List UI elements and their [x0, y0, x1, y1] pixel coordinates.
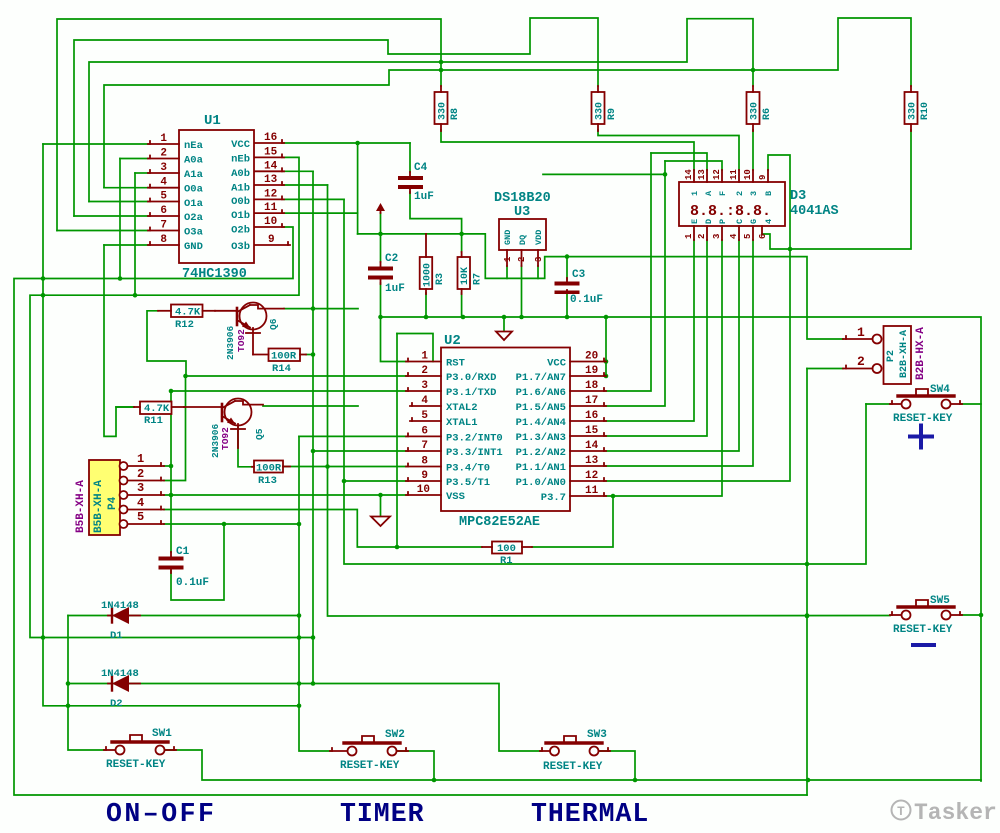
svg-text:A: A [704, 190, 714, 196]
svg-text:4: 4 [764, 219, 774, 224]
svg-text:4.7K: 4.7K [144, 403, 170, 415]
svg-text:1uF: 1uF [385, 283, 405, 295]
svg-text:3: 3 [160, 162, 167, 174]
svg-text:O0b: O0b [231, 196, 250, 208]
svg-text:RESET-KEY: RESET-KEY [893, 413, 953, 425]
svg-text:U1: U1 [204, 113, 221, 129]
svg-text:7: 7 [160, 220, 167, 232]
svg-text:P4: P4 [107, 496, 119, 510]
svg-text:0.1uF: 0.1uF [570, 294, 603, 306]
svg-text:A1b: A1b [231, 183, 250, 195]
svg-text:DS18B20: DS18B20 [494, 191, 551, 206]
svg-text:4041AS: 4041AS [790, 204, 839, 219]
svg-text:3: 3 [749, 191, 759, 196]
svg-text:9: 9 [421, 470, 428, 482]
svg-text:5: 5 [160, 191, 167, 203]
svg-text:R8: R8 [450, 108, 461, 120]
svg-text:SW2: SW2 [385, 729, 405, 741]
svg-text:P3.7: P3.7 [541, 492, 566, 504]
svg-text:R11: R11 [144, 415, 163, 427]
svg-text:R13: R13 [258, 475, 277, 487]
svg-text:4: 4 [421, 395, 428, 407]
svg-text:THERMAL: THERMAL [531, 799, 649, 829]
svg-text:19: 19 [585, 365, 598, 377]
svg-text:D2: D2 [110, 698, 123, 710]
svg-text:5: 5 [743, 234, 753, 239]
svg-text:RESET-KEY: RESET-KEY [543, 761, 603, 773]
svg-text:1N4148: 1N4148 [101, 668, 139, 680]
svg-text:RESET-KEY: RESET-KEY [340, 760, 400, 772]
svg-text:2: 2 [421, 365, 428, 377]
svg-text:2: 2 [517, 257, 527, 262]
svg-text:P3.3/INT1: P3.3/INT1 [446, 447, 503, 459]
svg-text:MPC82E52AE: MPC82E52AE [459, 515, 540, 530]
svg-text:TO92: TO92 [236, 329, 247, 352]
svg-text:6: 6 [160, 205, 167, 217]
svg-text:1: 1 [690, 191, 700, 196]
svg-text:O1a: O1a [184, 198, 204, 210]
svg-text:D1: D1 [110, 630, 123, 642]
svg-text:P3.4/T0: P3.4/T0 [446, 463, 490, 475]
svg-text:F: F [718, 191, 728, 196]
svg-text:RST: RST [446, 358, 465, 370]
svg-text:2N3906: 2N3906 [225, 325, 236, 360]
svg-text:6: 6 [421, 425, 428, 437]
svg-text:R10: R10 [920, 102, 931, 120]
svg-text:O1b: O1b [231, 210, 250, 222]
svg-text:16: 16 [585, 410, 598, 422]
svg-text:SW5: SW5 [930, 595, 950, 607]
svg-text:14: 14 [684, 169, 694, 180]
svg-text:12: 12 [264, 188, 277, 200]
svg-text:R14: R14 [272, 363, 291, 375]
svg-text:R9: R9 [607, 108, 618, 120]
svg-text:P3.1/TXD: P3.1/TXD [446, 387, 496, 399]
svg-text:1: 1 [684, 233, 694, 239]
svg-text:17: 17 [585, 395, 598, 407]
svg-text:12: 12 [712, 169, 722, 180]
svg-text:1N4148: 1N4148 [101, 600, 139, 612]
svg-text:16: 16 [264, 132, 277, 144]
svg-text:3: 3 [534, 257, 544, 262]
svg-text:11: 11 [585, 485, 599, 497]
svg-text:O2b: O2b [231, 225, 250, 237]
svg-text:2: 2 [857, 354, 865, 369]
svg-text:3: 3 [421, 380, 428, 392]
svg-text:3: 3 [712, 234, 722, 239]
svg-text:C: C [735, 219, 745, 224]
svg-text:R6: R6 [762, 108, 773, 120]
svg-text:100R: 100R [271, 351, 297, 363]
svg-text:4: 4 [729, 233, 739, 239]
svg-text:D: D [704, 219, 714, 224]
svg-text:13: 13 [264, 174, 278, 186]
svg-text:P3.0/RXD: P3.0/RXD [446, 372, 496, 384]
svg-text:10: 10 [417, 484, 430, 496]
svg-text:RESET-KEY: RESET-KEY [106, 759, 166, 771]
svg-text:VCC: VCC [231, 139, 251, 151]
svg-text:P3.2/INT0: P3.2/INT0 [446, 432, 503, 444]
svg-text:14: 14 [585, 440, 599, 452]
svg-text:6: 6 [758, 234, 768, 239]
svg-text:SW4: SW4 [930, 384, 950, 396]
svg-text:330: 330 [595, 102, 606, 120]
svg-text:P: P [718, 219, 728, 224]
svg-text:330: 330 [750, 102, 761, 120]
svg-text:13: 13 [697, 169, 707, 180]
svg-text:330: 330 [908, 102, 919, 120]
svg-text:SW3: SW3 [587, 729, 607, 741]
svg-text:0.1uF: 0.1uF [176, 577, 209, 589]
svg-text:4: 4 [137, 496, 144, 510]
svg-text:5: 5 [421, 410, 428, 422]
svg-text:B5B-XH-A: B5B-XH-A [93, 480, 105, 533]
svg-text:O2a: O2a [184, 212, 204, 224]
svg-text:TIMER: TIMER [340, 799, 425, 829]
svg-text:O0a: O0a [184, 184, 204, 196]
svg-text:B: B [764, 191, 774, 196]
svg-text:E: E [690, 219, 700, 224]
svg-text:nEa: nEa [184, 140, 204, 152]
svg-text:9: 9 [758, 175, 768, 180]
svg-text:7: 7 [421, 440, 428, 452]
svg-text:T: T [897, 804, 905, 819]
svg-text:1: 1 [857, 325, 865, 340]
svg-text:XTAL1: XTAL1 [446, 417, 478, 429]
svg-text:C1: C1 [176, 546, 190, 558]
svg-text:D3: D3 [790, 189, 806, 204]
svg-text:5: 5 [137, 510, 144, 524]
svg-text:1: 1 [160, 133, 167, 145]
svg-text:4: 4 [160, 177, 167, 189]
svg-text:P1.1/AN1: P1.1/AN1 [516, 462, 566, 474]
svg-text:1: 1 [421, 351, 428, 363]
svg-text:2: 2 [735, 191, 745, 196]
svg-text:B2B-HX-A: B2B-HX-A [915, 327, 927, 380]
svg-text:A0a: A0a [184, 155, 204, 167]
svg-text:P1.7/AN7: P1.7/AN7 [516, 372, 566, 384]
svg-text:A1a: A1a [184, 169, 204, 181]
svg-text:Q6: Q6 [268, 318, 279, 330]
svg-text:B2B-XH-A: B2B-XH-A [899, 330, 910, 378]
svg-text:TO92: TO92 [220, 427, 231, 450]
svg-text:O3b: O3b [231, 241, 250, 253]
svg-text:C4: C4 [414, 162, 428, 174]
svg-text:12: 12 [585, 470, 598, 482]
svg-text:330: 330 [438, 102, 449, 120]
svg-text:2: 2 [697, 234, 707, 239]
svg-text:RESET-KEY: RESET-KEY [893, 624, 953, 636]
svg-text:B5B-XH-A: B5B-XH-A [75, 480, 87, 533]
svg-text:VDD: VDD [534, 230, 544, 245]
svg-text:1uF: 1uF [414, 191, 434, 203]
svg-text:R1: R1 [500, 555, 513, 567]
svg-text:100: 100 [497, 543, 516, 555]
svg-text:1: 1 [137, 452, 144, 466]
svg-text:GND: GND [503, 230, 513, 245]
svg-text:R7: R7 [473, 273, 484, 285]
svg-text:11: 11 [264, 202, 278, 214]
svg-text:100R: 100R [256, 463, 282, 475]
svg-text:13: 13 [585, 455, 599, 467]
svg-text:P1.4/AN4: P1.4/AN4 [516, 417, 566, 429]
svg-text:14: 14 [264, 160, 278, 172]
svg-text:P1.6/AN6: P1.6/AN6 [516, 387, 566, 399]
svg-text:3: 3 [137, 481, 144, 495]
svg-text:P2: P2 [886, 350, 897, 362]
svg-text:11: 11 [729, 169, 739, 180]
svg-text:74HC1390: 74HC1390 [182, 267, 247, 282]
svg-text:9: 9 [268, 234, 275, 246]
svg-text:P1.2/AN2: P1.2/AN2 [516, 447, 566, 459]
svg-text:P3.5/T1: P3.5/T1 [446, 477, 490, 489]
svg-text:DQ: DQ [518, 235, 528, 245]
svg-text:15: 15 [264, 146, 278, 158]
svg-text:C3: C3 [572, 269, 586, 281]
svg-text:R12: R12 [175, 319, 194, 331]
svg-text:4.7K: 4.7K [175, 307, 201, 319]
svg-text:P1.0/AN0: P1.0/AN0 [516, 477, 566, 489]
svg-text:VSS: VSS [446, 491, 465, 503]
svg-text:GND: GND [184, 241, 203, 253]
svg-text:O3a: O3a [184, 227, 204, 239]
svg-text:8.8.:8.8.: 8.8.:8.8. [690, 203, 771, 220]
svg-text:R3: R3 [435, 273, 446, 285]
svg-text:1: 1 [503, 256, 513, 262]
svg-text:10: 10 [264, 216, 277, 228]
svg-text:Tasker: Tasker [914, 800, 997, 826]
svg-text:A0b: A0b [231, 168, 250, 180]
svg-text:18: 18 [585, 380, 599, 392]
svg-text:1000: 1000 [423, 263, 434, 287]
svg-text:2: 2 [160, 148, 167, 160]
svg-text:SW1: SW1 [152, 728, 172, 740]
svg-text:15: 15 [585, 425, 599, 437]
svg-text:nEb: nEb [231, 154, 250, 166]
svg-text:P1.5/AN5: P1.5/AN5 [516, 402, 566, 414]
svg-text:U2: U2 [444, 333, 461, 349]
svg-text:10K: 10K [460, 267, 471, 285]
svg-text:8: 8 [160, 234, 167, 246]
svg-text:VCC: VCC [547, 358, 567, 370]
svg-text:U3: U3 [514, 205, 530, 220]
svg-text:2: 2 [137, 467, 144, 481]
svg-text:ON–OFF: ON–OFF [106, 799, 216, 829]
svg-text:C2: C2 [385, 253, 398, 265]
svg-text:G: G [749, 219, 759, 224]
svg-text:P1.3/AN3: P1.3/AN3 [516, 432, 566, 444]
svg-text:8: 8 [421, 456, 428, 468]
svg-text:20: 20 [585, 351, 598, 363]
svg-text:XTAL2: XTAL2 [446, 402, 478, 414]
svg-text:10: 10 [743, 169, 753, 180]
svg-text:Q5: Q5 [254, 428, 265, 440]
